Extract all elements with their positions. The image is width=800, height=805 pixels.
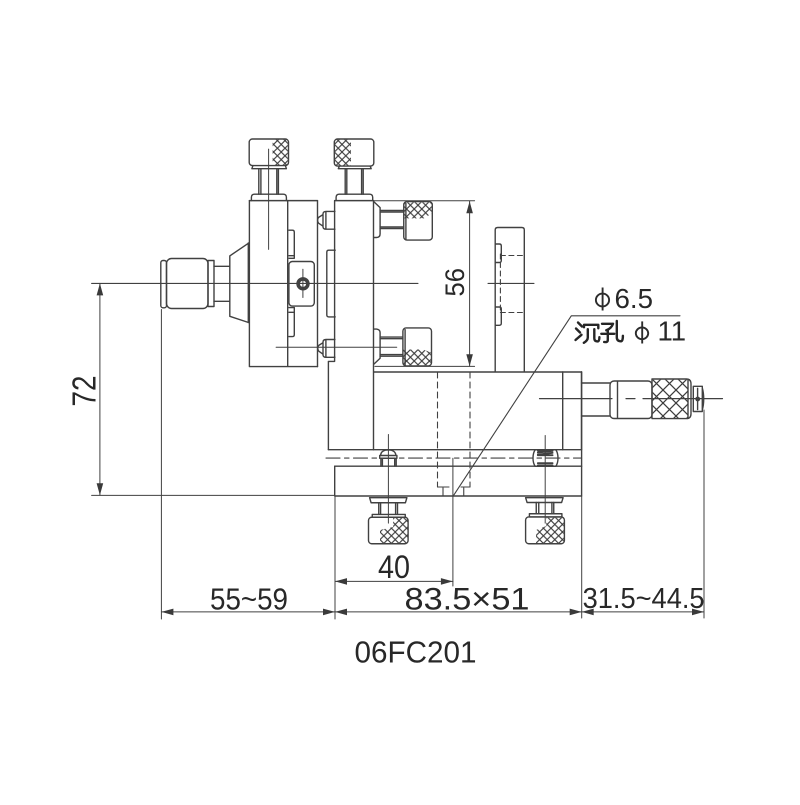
left pan screw centerline — [387, 435, 389, 524]
bottom setscrew centerline — [276, 346, 397, 348]
dim 72 line — [99, 283, 101, 495]
ext line micrometer end — [703, 410, 705, 618]
plate P1 — [288, 201, 318, 367]
top extension line for 56 — [335, 200, 475, 202]
main block top edge — [374, 371, 582, 373]
top thumbscrew knurl — [404, 202, 431, 218]
dim 40 line — [335, 580, 453, 582]
bottom thumbscrew stem — [380, 337, 403, 356]
knob K2 stem — [345, 169, 363, 195]
bottom plate outline — [335, 372, 582, 496]
bottom-right knob neck — [529, 514, 562, 517]
right micrometer barrel — [610, 381, 652, 419]
ext line plate right — [581, 496, 583, 618]
left pan screw — [380, 450, 397, 466]
knob K2 shoulder — [336, 194, 373, 200]
svg-text:31.5~44.5: 31.5~44.5 — [583, 583, 705, 615]
40 right arrow — [441, 578, 453, 585]
knob K2 cap knurl — [335, 140, 351, 166]
72 top arrow — [97, 283, 104, 295]
bottom-right knob flange — [526, 498, 564, 503]
bottom dim arrows at 161 — [161, 609, 173, 616]
glyph chen (sink) water radical — [576, 323, 583, 341]
leader line phi6.5 — [453, 316, 680, 497]
column A (vertical stage base) — [249, 201, 317, 367]
label chenkong phi 11 — [576, 321, 623, 343]
bottom-left knob flange — [370, 498, 407, 503]
right section screw centerline — [544, 436, 546, 524]
ext line bottom plate left — [334, 496, 336, 619]
left micrometer end ring — [161, 261, 167, 308]
72 bottom arrow — [97, 483, 104, 495]
main horizontal centerline — [92, 282, 418, 284]
main block right edge — [581, 372, 583, 450]
column B (X stage body) — [335, 201, 374, 450]
top thumbscrew flange — [374, 202, 380, 238]
glyph kong hook stroke — [617, 321, 623, 341]
top thumbscrew cap — [404, 202, 433, 241]
bottom dim line — [161, 611, 704, 613]
hole vertical centerline — [302, 269, 304, 297]
bottom-right knob cap — [526, 517, 565, 544]
svg-text:83.5×51: 83.5×51 — [405, 581, 530, 617]
56 top arrow — [466, 201, 473, 213]
bottom dim arrows at 581.7 — [570, 609, 582, 616]
counterbore profile — [438, 487, 471, 496]
hole ring — [297, 278, 309, 290]
bottom dim arrow at 704 — [692, 609, 704, 616]
svg-text:56: 56 — [440, 268, 470, 297]
arrowheads — [97, 201, 704, 615]
knob K1 stem — [259, 169, 279, 195]
dim 56 line — [469, 201, 471, 366]
svg-text:6.5: 6.5 — [615, 283, 654, 314]
right plate tab upper — [495, 244, 501, 263]
ext line hole center — [452, 458, 454, 586]
bottom setscrew bullet tip — [318, 340, 335, 358]
plate P1 upper slot — [289, 230, 294, 258]
svg-text:11: 11 — [658, 316, 687, 347]
knob1 top edge ext — [249, 200, 317, 202]
knob K1 centerline — [268, 149, 270, 249]
left micrometer front ring — [208, 261, 214, 307]
bottom thumbscrew cap — [403, 328, 432, 366]
bottom-right knob stem — [536, 503, 554, 514]
svg-text:06FC201: 06FC201 — [355, 635, 477, 670]
right plate (Z bracket) — [495, 228, 524, 372]
right section screw — [533, 450, 558, 467]
phi symbol 6.5 — [596, 294, 609, 307]
column B slot tab — [327, 250, 335, 317]
plate P1 lower slot — [289, 308, 294, 337]
bottom plate bottom ext to left — [92, 494, 335, 496]
top setscrew bullet tip — [318, 211, 335, 229]
svg-text:72: 72 — [66, 376, 103, 407]
label phi 6.5 — [596, 288, 609, 311]
svg-text:55~59: 55~59 — [210, 583, 288, 617]
phi symbol 11 — [636, 321, 648, 343]
glyph chen cover and legs — [584, 325, 598, 329]
knob K2 cap — [334, 139, 374, 166]
knob K1 cap knurl — [273, 140, 288, 165]
right micrometer ratchet cap — [693, 386, 703, 411]
hidden hole dashed right — [469, 372, 471, 487]
knob K1 cap — [249, 139, 288, 166]
right micrometer centerline — [540, 398, 723, 400]
hidden hole dashed left — [437, 372, 439, 487]
bottom-left knob knurl — [380, 518, 408, 543]
bottom thumbscrew knurl — [404, 350, 431, 366]
bottom-left knob cap — [369, 517, 409, 544]
top thumbscrew stem — [380, 211, 404, 229]
right plate hidden dashes — [500, 254, 524, 314]
right micrometer thimble — [652, 379, 691, 419]
knob K1 shoulder — [251, 194, 286, 200]
right plate centerline — [488, 282, 534, 284]
carriage notch — [328, 357, 334, 450]
bottom dim arrows at 335 — [323, 609, 335, 616]
glyph kong (hole) zi radical — [601, 324, 614, 342]
bottom-right knob knurl — [536, 518, 564, 544]
bottom extension line for 56 — [375, 365, 475, 367]
right plate tab lower — [495, 307, 501, 325]
left micrometer stem — [214, 266, 230, 301]
bottom-left knob centerline — [387, 466, 389, 523]
square plate with hole — [289, 262, 314, 307]
main block inner step — [562, 372, 564, 450]
56 bottom arrow — [466, 354, 473, 366]
bottom thumbscrew flange — [374, 329, 380, 364]
right micrometer stem — [582, 383, 611, 416]
main block bottom edge — [328, 449, 581, 451]
bottom-left knob stem — [379, 503, 398, 515]
left micrometer cone — [230, 243, 249, 323]
knob K1 flange — [252, 166, 287, 169]
bottom-left knob neck — [372, 514, 405, 517]
lower rail plate top — [335, 465, 582, 467]
lower rail dash-dot centerline — [326, 457, 582, 459]
40 left arrow — [335, 578, 347, 585]
ext line 55~59 left — [160, 310, 162, 620]
left micrometer barrel — [167, 259, 209, 309]
knob K2 flange — [338, 166, 371, 169]
